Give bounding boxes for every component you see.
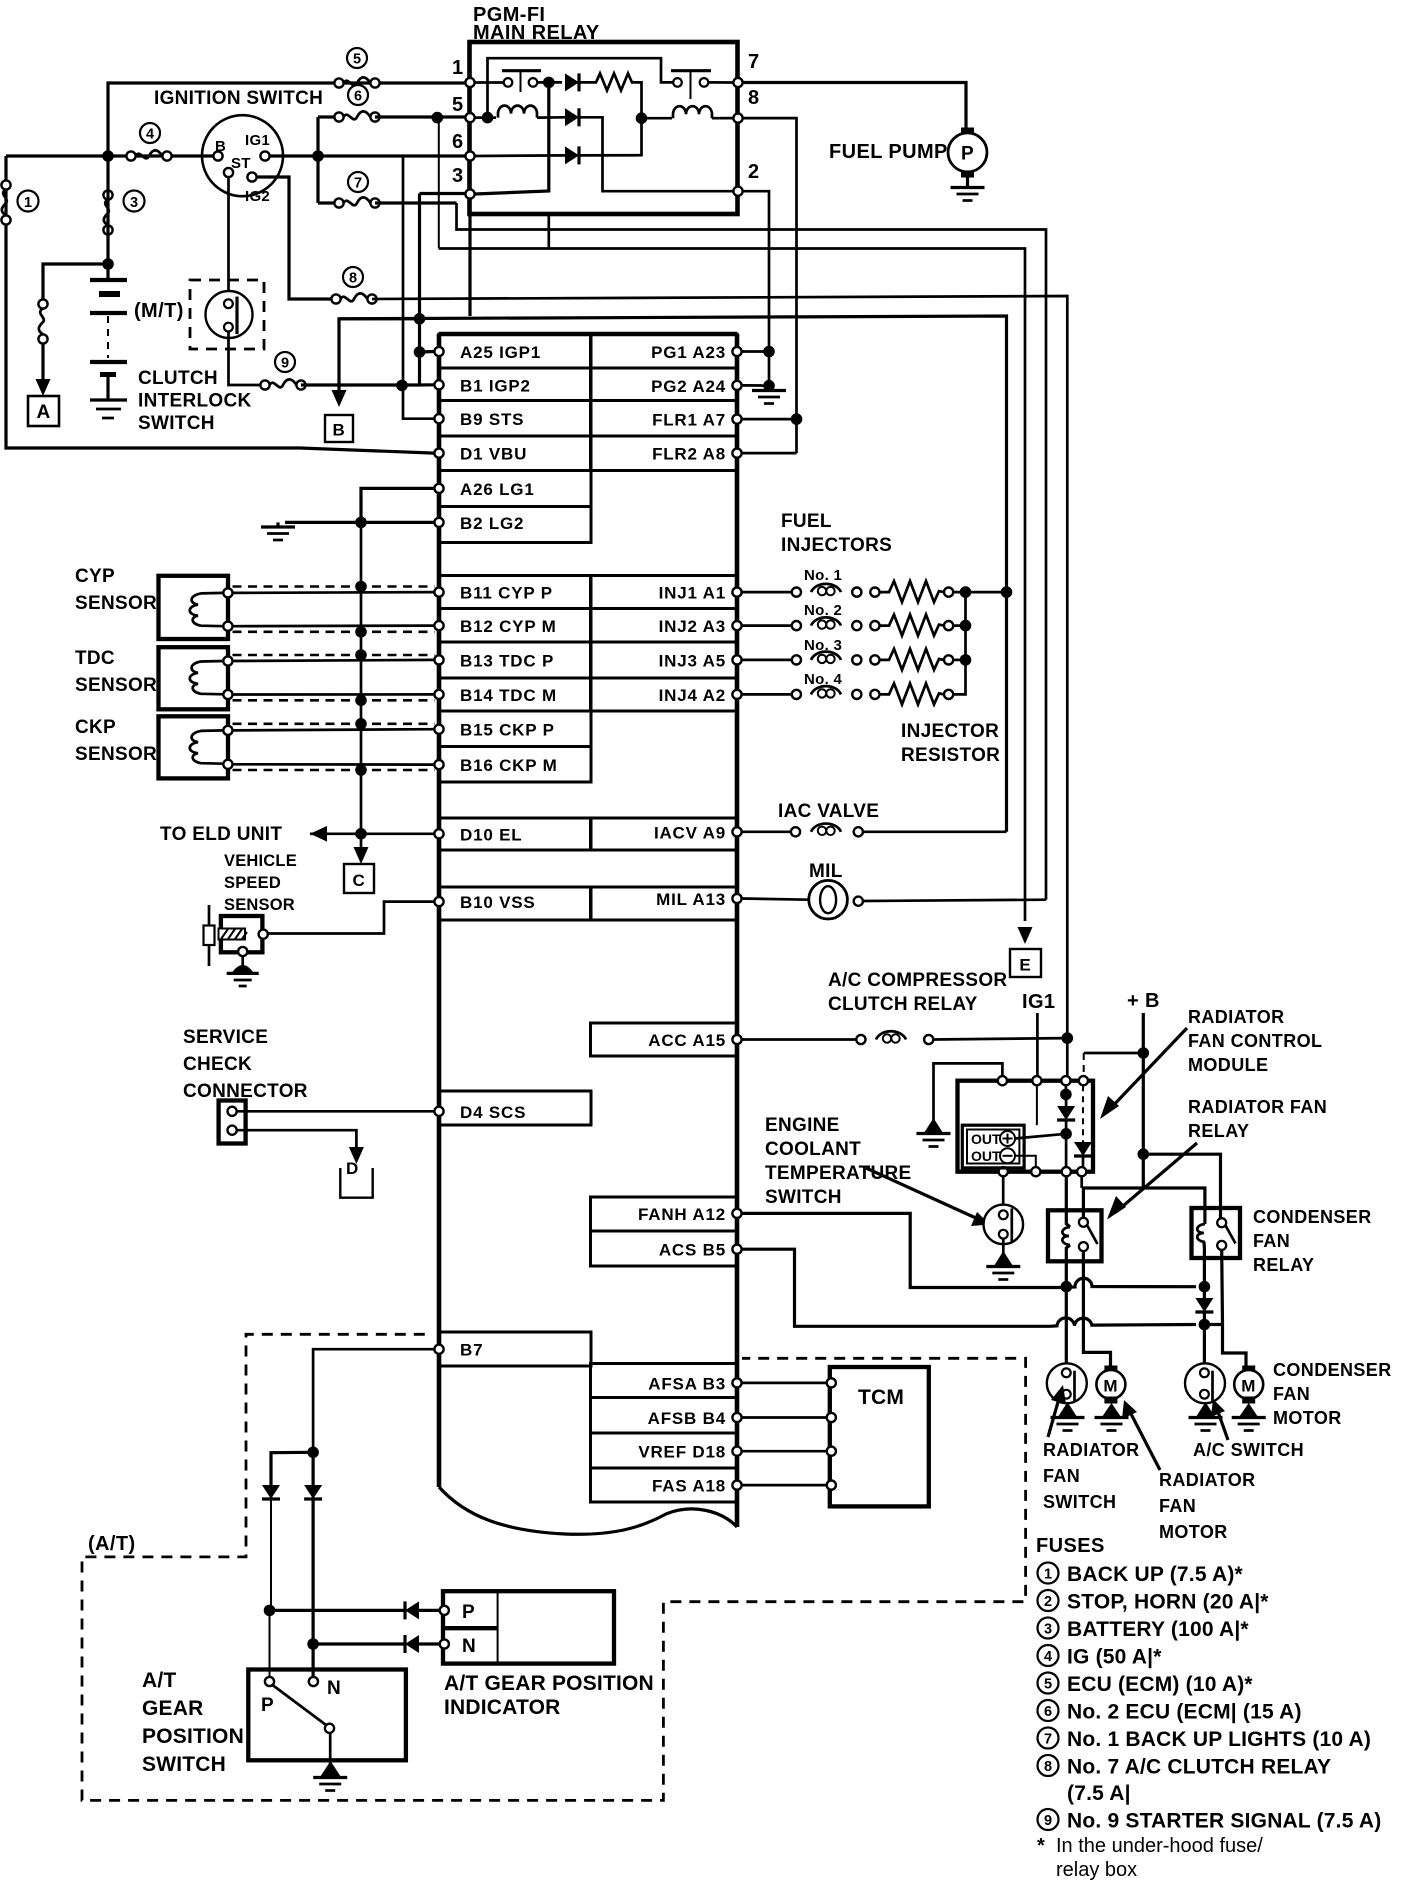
wire pin2 to PG ground rail xyxy=(743,191,769,386)
wire A25 branch xyxy=(420,350,435,354)
clutch interlock dashed box xyxy=(190,280,264,349)
fuse 9 xyxy=(260,379,305,389)
condenser coil out xyxy=(1202,1242,1206,1287)
svg-text:IG (50 A|*: IG (50 A|* xyxy=(1067,1646,1162,1669)
injector pin xyxy=(944,621,953,630)
pin B4 xyxy=(732,1413,741,1422)
dashed A/T boundary xyxy=(82,1334,1026,1800)
condenser coil feed xyxy=(1143,1188,1205,1224)
svg-text:OUT: OUT xyxy=(971,1131,1001,1147)
wire VSS ground xyxy=(241,956,244,966)
svg-text:B10 VSS: B10 VSS xyxy=(460,893,536,912)
wire +B to module pin4 xyxy=(1084,1052,1144,1055)
svg-text:FAN: FAN xyxy=(1273,1384,1310,1404)
wire C drop xyxy=(360,834,363,848)
condenser contact bottom xyxy=(1217,1241,1226,1250)
svg-text:AFSB B4: AFSB B4 xyxy=(648,1409,726,1428)
pin D4 xyxy=(434,1107,443,1116)
pin B14 xyxy=(434,690,443,699)
pin A13 xyxy=(732,894,741,903)
wire b4 join xyxy=(1080,1176,1083,1188)
junction shield CKP P xyxy=(355,718,367,730)
ECU cell B7 xyxy=(439,1332,591,1366)
ECU cell B16 CKP M xyxy=(439,747,591,783)
wire ECU feed drop xyxy=(438,118,440,249)
fuse 6 xyxy=(334,111,379,121)
svg-text:9: 9 xyxy=(1044,1813,1052,1829)
diode P xyxy=(262,1485,280,1499)
arrow into C xyxy=(354,847,369,864)
svg-text:C: C xyxy=(352,871,365,890)
wire OUT- down xyxy=(1015,1156,1036,1167)
svg-text:A: A xyxy=(36,402,50,423)
box C xyxy=(344,864,374,893)
pin B2 xyxy=(434,518,443,527)
wire fuse6 to pin5 xyxy=(375,115,470,118)
diode module V2 xyxy=(1082,1085,1084,1142)
junction at battery top xyxy=(102,258,114,270)
svg-text:ACS B5: ACS B5 xyxy=(659,1241,726,1260)
wire fuse9 to STS column xyxy=(301,383,420,386)
ECU cell INJ1 A1 xyxy=(591,576,738,609)
wire coil1 to D2 xyxy=(537,116,565,119)
ECU cell PG1 A23 xyxy=(591,334,738,368)
relay contact bottom xyxy=(1079,1242,1088,1251)
pin B13 xyxy=(434,655,443,664)
svg-text:N: N xyxy=(462,1636,476,1657)
wire b1 to temp switch xyxy=(1002,1176,1005,1210)
fuse 8 label xyxy=(343,267,363,287)
CKP sensor box xyxy=(159,716,229,778)
ground fuel pump xyxy=(951,188,985,201)
switch blade xyxy=(273,1685,327,1725)
resistor no.3 xyxy=(880,649,945,670)
svg-text:B2 LG2: B2 LG2 xyxy=(460,514,524,533)
diode N indicator xyxy=(405,1635,419,1653)
svg-text:FLR1 A7: FLR1 A7 xyxy=(652,411,726,430)
junction battery node xyxy=(102,150,114,162)
wire relay left edge drop xyxy=(468,214,471,316)
injector no.4 xyxy=(792,690,801,699)
svg-text:A/C SWITCH: A/C SWITCH xyxy=(1193,1440,1304,1460)
wire temp switch ground xyxy=(1002,1239,1005,1262)
wire fuse8 to A/C relay column xyxy=(372,296,1067,1081)
svg-text:OUT: OUT xyxy=(971,1148,1001,1164)
+B link xyxy=(1083,1188,1143,1218)
wire IG1 riser xyxy=(316,117,319,203)
wire B10 VSS xyxy=(268,902,435,934)
callout arrow A/C switch xyxy=(1217,1409,1228,1440)
svg-text:6: 6 xyxy=(354,89,362,105)
pin B xyxy=(213,151,222,160)
svg-text:A/C COMPRESSOR: A/C COMPRESSOR xyxy=(828,970,1007,991)
ECU cell B11 CYP P xyxy=(439,576,591,609)
pin A23 xyxy=(732,347,741,356)
shield CYP M xyxy=(233,630,435,633)
pin 5 xyxy=(465,113,474,122)
svg-text:FAS A18: FAS A18 xyxy=(652,1477,726,1496)
fuse 6 label xyxy=(348,85,368,105)
svg-text:SENSOR: SENSOR xyxy=(75,593,157,614)
indicator pin P xyxy=(440,1606,449,1615)
ECU cell A26 LG1 xyxy=(439,471,591,507)
condenser coil xyxy=(1197,1224,1205,1242)
box B xyxy=(325,415,353,442)
indicator pin N xyxy=(440,1639,449,1648)
ECU cell D4 SCS xyxy=(439,1091,591,1125)
svg-text:FAN CONTROL: FAN CONTROL xyxy=(1188,1031,1322,1051)
svg-text:ST: ST xyxy=(231,155,251,172)
wire N branch xyxy=(312,1452,315,1485)
diode N xyxy=(304,1485,322,1499)
pin 8 xyxy=(733,114,742,123)
box A xyxy=(28,396,59,426)
junction inj1 rail xyxy=(960,586,972,598)
vehicle speed sensor xyxy=(208,905,211,966)
ECU cell B9 STS xyxy=(439,401,591,437)
fuse list 2 xyxy=(1038,1590,1059,1611)
svg-text:CONDENSER: CONDENSER xyxy=(1273,1360,1392,1380)
relay contact blade xyxy=(1087,1225,1098,1244)
condenser fan relay box xyxy=(1192,1208,1241,1258)
wire N drop xyxy=(312,1644,315,1677)
wire to rail xyxy=(953,624,965,627)
pin A12 xyxy=(732,1209,741,1218)
junction B7 split xyxy=(307,1447,319,1459)
TDC pin P xyxy=(223,656,232,665)
junction PG2 xyxy=(763,380,775,392)
ECU cell FAS A18 xyxy=(591,1468,738,1502)
ECU cell FANH A12 xyxy=(591,1197,738,1231)
svg-text:INJ2 A3: INJ2 A3 xyxy=(659,617,726,636)
svg-text:5: 5 xyxy=(1044,1677,1052,1693)
wire INJ3 xyxy=(742,659,792,662)
TDC coil xyxy=(190,661,224,694)
ECU cell IACV A9 xyxy=(591,818,738,850)
TCM box xyxy=(830,1367,929,1506)
svg-text:B15 CKP P: B15 CKP P xyxy=(460,721,555,740)
svg-text:6: 6 xyxy=(452,131,464,153)
fuse list 7 xyxy=(1038,1728,1059,1749)
wire +B drop xyxy=(1142,1013,1145,1188)
junction dot B xyxy=(636,112,648,124)
junction fuse6 tap xyxy=(432,112,444,124)
wire rail no.4 xyxy=(953,592,965,694)
svg-text:SPEED: SPEED xyxy=(224,874,281,892)
junction dot A xyxy=(543,77,555,89)
pin B11 xyxy=(434,588,443,597)
TDC sensor box xyxy=(159,647,229,709)
svg-text:2: 2 xyxy=(1044,1594,1052,1610)
wire CYP M xyxy=(233,624,435,627)
wire CKP P xyxy=(233,729,435,730)
resistor no.1 xyxy=(880,581,945,602)
svg-text:N: N xyxy=(327,1678,341,1699)
wire B7 xyxy=(313,1349,434,1452)
svg-text:BACK UP (7.5 A)*: BACK UP (7.5 A)* xyxy=(1067,1563,1244,1586)
wire P line xyxy=(270,1609,405,1612)
junction A25 tap xyxy=(414,346,426,358)
wire B riser xyxy=(339,319,420,390)
pin B16 xyxy=(434,760,443,769)
wire D2 to pin2 xyxy=(579,117,733,191)
wire diode N to N line xyxy=(312,1499,315,1644)
service check connector xyxy=(219,1101,246,1144)
wire fuse6 feed xyxy=(318,115,339,118)
ignition switch body xyxy=(202,115,283,196)
pin 2 xyxy=(733,187,742,196)
wire to rail xyxy=(953,659,965,662)
junction shield CYP P xyxy=(355,581,367,593)
junction shield TDC P xyxy=(355,649,367,661)
wire pin7 to pump xyxy=(743,83,966,129)
ECU cell ACC A15 xyxy=(591,1023,738,1056)
wire FAS A18 to TCM xyxy=(742,1484,827,1487)
junction LG xyxy=(355,517,367,529)
svg-text:SWITCH: SWITCH xyxy=(765,1187,842,1208)
ECU right edge xyxy=(735,334,740,1527)
junction STS xyxy=(396,380,408,392)
svg-text:1: 1 xyxy=(24,195,32,211)
A/C clutch relay coil xyxy=(856,1035,865,1044)
wire to rail xyxy=(953,591,1006,594)
wire coil2 to pin8 xyxy=(712,117,733,120)
svg-text:B: B xyxy=(215,138,226,155)
pin A18 xyxy=(732,1481,741,1490)
ECU cell B10 VSS xyxy=(439,887,591,920)
svg-text:PG1 A23: PG1 A23 xyxy=(651,343,726,362)
fuse 4 xyxy=(126,150,171,160)
wire fan switch drop xyxy=(1065,1287,1068,1364)
pin B12 xyxy=(434,621,443,630)
wire t2 to OUT box xyxy=(1036,1085,1038,1125)
svg-text:FUEL PUMP: FUEL PUMP xyxy=(829,141,948,163)
ECU cell B14 TDC M xyxy=(439,678,591,711)
svg-text:PG2 A24: PG2 A24 xyxy=(651,377,726,396)
svg-text:SENSOR: SENSOR xyxy=(75,744,157,765)
svg-text:8: 8 xyxy=(1044,1759,1052,1775)
fuse 9 label xyxy=(275,352,295,372)
wire t3 down xyxy=(1065,1085,1068,1101)
resistor R1 xyxy=(579,73,635,90)
fuse 3 label xyxy=(124,191,145,212)
ECU cell MIL A13 xyxy=(591,887,738,920)
pin A9 xyxy=(732,827,741,836)
svg-text:D4 SCS: D4 SCS xyxy=(460,1103,526,1122)
ECU cell D1 VBU xyxy=(439,436,591,471)
fuse 5 label xyxy=(347,48,367,68)
svg-text:8: 8 xyxy=(748,87,760,109)
svg-text:A26 LG1: A26 LG1 xyxy=(460,480,535,499)
svg-text:TEMPERATURE: TEMPERATURE xyxy=(765,1163,912,1184)
svg-text:ENGINE: ENGINE xyxy=(765,1115,840,1136)
ground temp switch xyxy=(994,1251,1013,1266)
svg-text:TCM: TCM xyxy=(858,1386,904,1409)
svg-text:(M/T): (M/T) xyxy=(134,300,184,322)
fuse list 3 xyxy=(1038,1618,1059,1639)
injector no.1 xyxy=(792,588,801,597)
svg-text:No. 2 ECU (ECM| (15 A): No. 2 ECU (ECM| (15 A) xyxy=(1067,1701,1302,1724)
pin B9 xyxy=(434,414,443,423)
svg-text:A25 IGP1: A25 IGP1 xyxy=(460,343,541,362)
shield CKP P xyxy=(233,722,435,725)
junction shield CKP M xyxy=(355,764,367,776)
pin 7 xyxy=(733,78,742,87)
arrow into B xyxy=(332,390,347,407)
injector pin xyxy=(944,588,953,597)
OUT box xyxy=(962,1125,1024,1168)
MIL lamp xyxy=(809,880,848,919)
wire A26 LG1 xyxy=(361,488,434,522)
svg-text:RADIATOR FAN: RADIATOR FAN xyxy=(1188,1097,1327,1117)
pin A2 xyxy=(732,690,741,699)
wire PG2 to ground xyxy=(742,384,769,387)
wire FANH A12 xyxy=(742,1213,1059,1287)
wire D3 to dotB xyxy=(579,118,642,155)
ECU torn bottom xyxy=(439,1487,737,1534)
junction D10 xyxy=(355,828,367,840)
pin IG2 xyxy=(247,172,256,181)
wire pump to ground xyxy=(966,177,969,187)
wire dotA to pin3 xyxy=(475,82,549,194)
svg-text:B12 CYP M: B12 CYP M xyxy=(460,617,557,636)
wire fuse7 feed xyxy=(318,201,339,204)
wire CYP P xyxy=(233,591,435,595)
TCM pin 1 xyxy=(827,1378,836,1387)
fuse list 1 xyxy=(1038,1563,1059,1584)
svg-text:RELAY: RELAY xyxy=(1188,1121,1249,1141)
A/T gear position switch box xyxy=(248,1670,406,1761)
wire ST drop xyxy=(227,177,230,292)
junction inj2 rail xyxy=(960,620,972,632)
shield TDC M xyxy=(233,699,435,702)
svg-text:D10 EL: D10 EL xyxy=(460,825,522,844)
wire main relay rail to injectors xyxy=(339,316,1007,832)
svg-text:5: 5 xyxy=(353,52,361,68)
svg-text:SENSOR: SENSOR xyxy=(75,675,157,696)
svg-text:CHECK: CHECK xyxy=(183,1054,252,1075)
module pin t1 xyxy=(998,1076,1007,1085)
svg-text:CONDENSER: CONDENSER xyxy=(1253,1207,1372,1227)
resistor no.2 xyxy=(880,615,945,636)
fuse 4 label xyxy=(140,123,160,143)
pin D1 xyxy=(434,449,443,458)
junction dot C xyxy=(482,112,494,124)
wire module gnd pin xyxy=(934,1063,1003,1129)
wire IACV to rail xyxy=(863,830,1007,833)
callout arrow fan switch xyxy=(1048,1395,1060,1437)
svg-text:7: 7 xyxy=(1044,1732,1052,1748)
ECU cell AFSB B4 xyxy=(591,1398,738,1434)
fuel pump motor xyxy=(961,128,974,135)
svg-text:3: 3 xyxy=(130,195,138,211)
svg-text:ACC A15: ACC A15 xyxy=(648,1031,726,1050)
junction +B upper xyxy=(1138,1047,1150,1059)
TCM pin 3 xyxy=(827,1447,836,1456)
module pin t4 xyxy=(1079,1076,1088,1085)
relay coil feed xyxy=(1066,1176,1070,1227)
ECU cell B13 TDC P xyxy=(439,642,591,678)
shield CKP M xyxy=(233,769,435,772)
wire FLR1 to pin8 rail xyxy=(742,418,797,421)
module pin b3 xyxy=(1062,1167,1071,1176)
relay contact 1 xyxy=(504,78,513,87)
svg-text:8: 8 xyxy=(349,271,357,287)
wire N line xyxy=(313,1642,404,1645)
temp switch body xyxy=(984,1205,1024,1245)
fuse 1 label xyxy=(18,191,39,212)
wire MIL A13 xyxy=(742,899,809,900)
pin ST xyxy=(224,168,233,177)
pin A8 xyxy=(732,449,741,458)
ECU cell B12 CYP M xyxy=(439,609,591,643)
callout arrow fan motor xyxy=(1129,1410,1160,1470)
svg-text:FAN: FAN xyxy=(1159,1496,1196,1516)
junction IG1 column xyxy=(312,150,324,162)
clutch interlock switch xyxy=(206,291,253,338)
svg-text:5: 5 xyxy=(452,94,464,116)
svg-text:IG2: IG2 xyxy=(245,188,270,205)
ground module xyxy=(924,1118,943,1133)
ECU cell INJ3 A5 xyxy=(591,642,738,678)
fuse 5 xyxy=(334,77,379,87)
svg-text:MIL A13: MIL A13 xyxy=(656,890,726,909)
ECU cell INJ4 A2 xyxy=(591,678,738,711)
svg-text:M: M xyxy=(1103,1377,1118,1396)
pin 1 xyxy=(465,78,474,87)
ECU cell PG2 A24 xyxy=(591,368,738,401)
svg-text:(A/T): (A/T) xyxy=(88,1533,136,1555)
VSS pin gnd xyxy=(238,947,247,956)
svg-text:INJ3 A5: INJ3 A5 xyxy=(659,651,726,670)
switch pin N xyxy=(309,1677,318,1686)
svg-text:IG1: IG1 xyxy=(1022,991,1055,1013)
ECU cell INJ2 A3 xyxy=(591,609,738,643)
wire to D xyxy=(237,1130,357,1148)
svg-text:No. 9 STARTER SIGNAL (7.5 A): No. 9 STARTER SIGNAL (7.5 A) xyxy=(1067,1810,1381,1833)
svg-text:GEAR: GEAR xyxy=(142,1697,203,1720)
svg-text:relay box: relay box xyxy=(1056,1859,1137,1881)
svg-text:No. 7 A/C CLUTCH RELAY: No. 7 A/C CLUTCH RELAY xyxy=(1067,1756,1331,1779)
svg-text:P: P xyxy=(462,1602,475,1623)
radiator fan relay box xyxy=(1048,1210,1102,1261)
pin B5 xyxy=(732,1245,741,1254)
relay coil xyxy=(1062,1227,1070,1245)
box D xyxy=(340,1168,372,1198)
wire main B+ horizontal xyxy=(6,154,218,157)
wire AFSA B3 to TCM xyxy=(742,1382,827,1385)
svg-text:SWITCH: SWITCH xyxy=(138,413,215,434)
wire OUT+ to V1 xyxy=(1015,1134,1066,1139)
svg-text:4: 4 xyxy=(1044,1649,1052,1665)
svg-text:B7: B7 xyxy=(460,1341,483,1360)
wire top feed from battery node to relay pin 1 xyxy=(108,83,470,156)
ECU cell ACS B5 xyxy=(591,1231,738,1266)
fuse list 6 xyxy=(1038,1700,1059,1721)
pin B15 xyxy=(434,725,443,734)
svg-text:RADIATOR: RADIATOR xyxy=(1043,1440,1140,1460)
svg-text:RESISTOR: RESISTOR xyxy=(901,745,1000,766)
pin IG1 xyxy=(260,151,269,160)
svg-text:INJECTORS: INJECTORS xyxy=(781,535,892,556)
svg-text:INJ4 A2: INJ4 A2 xyxy=(659,686,726,705)
svg-text:BATTERY (100 A|*: BATTERY (100 A|* xyxy=(1067,1618,1249,1641)
ECU cell FLR1 A7 xyxy=(591,401,738,437)
ECU cell D10 EL xyxy=(439,818,591,850)
pin B7 xyxy=(434,1345,443,1354)
svg-text:1: 1 xyxy=(1044,1567,1052,1583)
injector pin xyxy=(944,690,953,699)
